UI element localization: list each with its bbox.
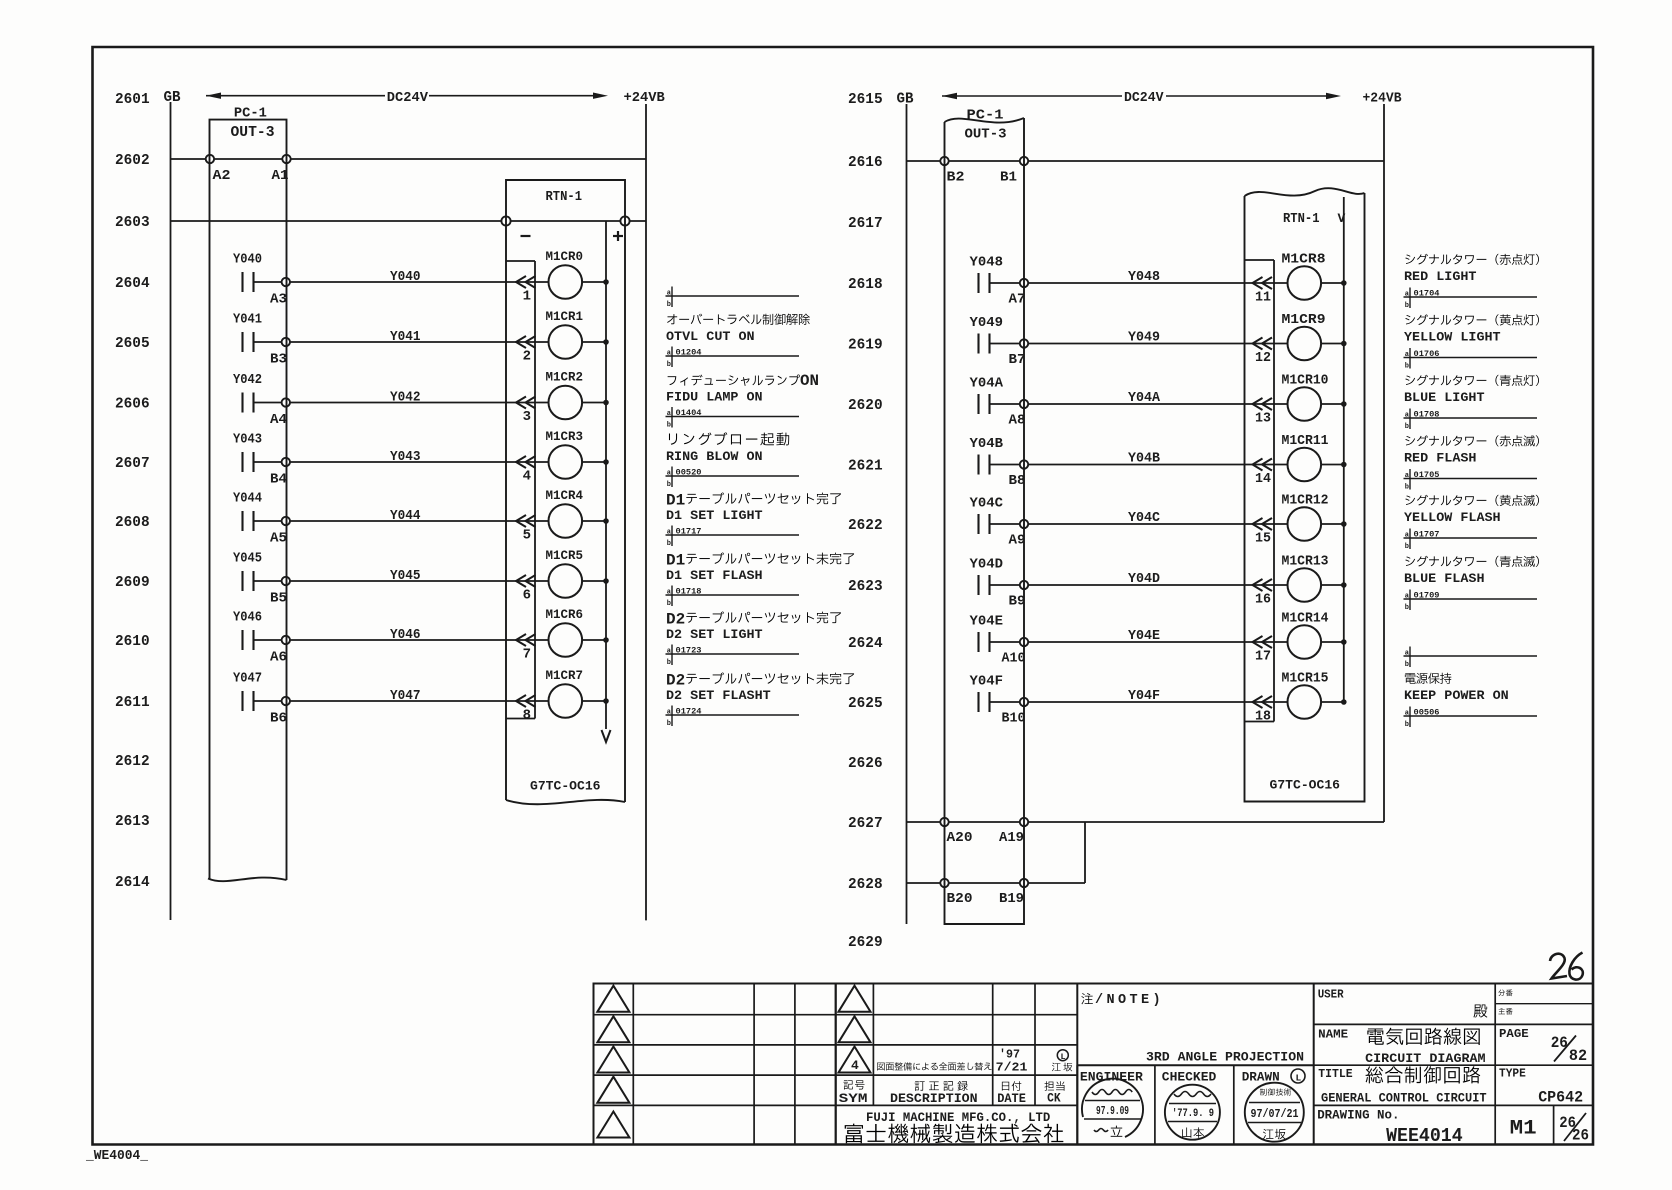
svg-text:B6: B6 — [270, 712, 287, 727]
svg-text:01718: 01718 — [676, 586, 702, 596]
svg-text:6: 6 — [523, 588, 531, 604]
wire coil M1CR10 to plus rail — [1321, 402, 1346, 407]
svg-text:b: b — [667, 301, 671, 309]
svg-text:7/21: 7/21 — [996, 1061, 1028, 1075]
relay coil M1CR13 — [1282, 555, 1329, 602]
wire +24VB bus right — [1383, 104, 1385, 822]
svg-text:b: b — [667, 720, 671, 728]
svg-text:15: 15 — [1255, 531, 1271, 547]
handwritten page 26 — [1550, 953, 1583, 980]
cell USER — [1318, 988, 1488, 1018]
relay coil M1CR15 — [1282, 672, 1329, 719]
svg-text:Y045: Y045 — [390, 568, 421, 584]
svg-text:b: b — [667, 481, 671, 489]
svg-text:PAGE: PAGE — [1499, 1027, 1529, 1041]
svg-text:Y047: Y047 — [390, 688, 421, 704]
wire minus column left — [506, 261, 535, 719]
revision mark 4 — [839, 1047, 871, 1074]
svg-text:01723: 01723 — [676, 645, 702, 655]
revision table right — [836, 984, 1078, 1145]
net label 2602 — [115, 152, 150, 169]
svg-text:CP642: CP642 — [1538, 1088, 1583, 1106]
svg-text:Y04C: Y04C — [970, 497, 1004, 512]
pin 14 — [1255, 471, 1271, 487]
wire contact to terminal B7 — [990, 343, 1020, 345]
svg-text:Y04D: Y04D — [970, 558, 1004, 573]
svg-text:b: b — [1405, 363, 1409, 371]
pin 8 — [523, 708, 531, 724]
net label 2623 — [848, 578, 883, 595]
relay coil M1CR12 — [1282, 494, 1329, 541]
svg-text:FIDU LAMP ON: FIDU LAMP ON — [666, 390, 763, 405]
net label 2621 — [848, 458, 883, 475]
pin 15 — [1255, 531, 1271, 547]
node A7 — [1009, 279, 1029, 308]
annotation row 2618 — [1404, 254, 1539, 310]
note box — [1077, 984, 1313, 1066]
arrow into RTN-1 pin 4 — [516, 456, 536, 468]
relay coil M1CR1 — [546, 309, 584, 359]
node GB right — [897, 92, 914, 108]
svg-text:b: b — [1405, 543, 1409, 551]
svg-text:Y04E: Y04E — [970, 615, 1004, 630]
contact Y047 — [233, 672, 262, 712]
svg-text:G7TC-OC16: G7TC-OC16 — [530, 779, 601, 794]
contact Y04D — [970, 558, 1004, 596]
revision mark right 1 — [839, 986, 871, 1012]
pin 17 — [1255, 649, 1271, 665]
svg-text:M1CR13: M1CR13 — [1282, 555, 1329, 570]
node A4 — [270, 398, 290, 428]
node A2 — [206, 155, 231, 184]
svg-text:G7TC-OC16: G7TC-OC16 — [1270, 778, 1341, 793]
svg-text:2610: 2610 — [115, 633, 150, 650]
node B2 — [940, 157, 964, 186]
svg-text:b: b — [1405, 484, 1409, 492]
node B20 — [940, 879, 972, 907]
node +24VB left — [624, 90, 666, 106]
svg-text:b: b — [667, 422, 671, 430]
node A10 — [1002, 638, 1029, 667]
svg-text:M1CR3: M1CR3 — [546, 429, 584, 444]
wire Y046 to coil — [290, 627, 549, 643]
svg-text:Y04F: Y04F — [970, 675, 1004, 690]
relay coil M1CR10 — [1282, 374, 1329, 421]
svg-text:17: 17 — [1255, 649, 1271, 665]
contact Y043 — [233, 433, 262, 473]
net label 2618 — [848, 276, 883, 293]
svg-text:01705: 01705 — [1414, 470, 1440, 480]
node A5 — [270, 517, 290, 547]
svg-text:Y04A: Y04A — [1128, 390, 1161, 406]
node A6 — [270, 636, 290, 666]
svg-text:Y044: Y044 — [233, 492, 262, 507]
wire plus rail right — [1343, 197, 1345, 702]
pin 5 — [523, 528, 531, 544]
pin 18 — [1255, 709, 1271, 725]
wire Y042 to coil — [290, 390, 549, 406]
svg-text:GENERAL CONTROL CIRCUIT: GENERAL CONTROL CIRCUIT — [1321, 1091, 1487, 1105]
wire contact to terminal A4 — [254, 402, 282, 404]
revision header SYM — [839, 1080, 868, 1106]
wire contact to terminal B4 — [254, 461, 282, 463]
node A1 — [272, 155, 291, 184]
svg-text:M1: M1 — [1510, 1118, 1537, 1141]
svg-text:ON: ON — [800, 372, 819, 390]
svg-text:D2 SET FLASHT: D2 SET FLASHT — [666, 688, 771, 703]
node +24VB right — [1363, 90, 1403, 106]
svg-text:B2: B2 — [947, 171, 965, 186]
net label 2620 — [848, 397, 883, 414]
cell user codes — [1495, 984, 1593, 1025]
svg-text:WEE4014: WEE4014 — [1386, 1125, 1463, 1147]
contact Y048 — [970, 256, 1004, 294]
wire contact to terminal B10 — [990, 701, 1020, 703]
svg-text:97.9.09: 97.9.09 — [1096, 1105, 1129, 1118]
pin 6 — [523, 588, 531, 604]
svg-text:2601: 2601 — [115, 91, 150, 108]
relay coil M1CR5 — [546, 548, 584, 598]
svg-text:D1: D1 — [666, 552, 685, 570]
annotation row 2607 — [666, 432, 800, 489]
svg-text:M1CR12: M1CR12 — [1282, 494, 1329, 509]
svg-text:Y043: Y043 — [233, 433, 262, 448]
wire Y04F to coil — [1028, 688, 1287, 704]
wire contact to terminal A3 — [254, 281, 282, 283]
svg-text:3RD ANGLE PROJECTION: 3RD ANGLE PROJECTION — [1146, 1049, 1304, 1064]
node A9 — [1009, 520, 1029, 549]
svg-text:2622: 2622 — [848, 517, 883, 534]
svg-text:RED LIGHT: RED LIGHT — [1404, 269, 1477, 284]
relay coil M1CR3 — [546, 429, 584, 479]
wire 2628 — [907, 882, 1086, 884]
pin 12 — [1255, 350, 1271, 366]
annotation row 2610 — [666, 611, 841, 668]
label ENGINEER — [1080, 1070, 1143, 1085]
svg-text:b: b — [667, 361, 671, 369]
svg-text:18: 18 — [1255, 709, 1271, 725]
svg-text:DC24V: DC24V — [1124, 90, 1164, 106]
svg-text:SYM: SYM — [839, 1091, 868, 1106]
svg-text:B7: B7 — [1009, 353, 1026, 368]
svg-text:B19: B19 — [999, 892, 1024, 907]
node B3 — [270, 338, 290, 368]
svg-text:+24VB: +24VB — [624, 90, 666, 106]
net label 2615 — [848, 91, 883, 108]
svg-text:01706: 01706 — [1414, 349, 1440, 359]
svg-text:Y043: Y043 — [390, 449, 421, 465]
node B5 — [270, 577, 290, 607]
svg-text:b: b — [667, 600, 671, 608]
svg-text:DATE: DATE — [997, 1091, 1026, 1106]
arrow into RTN-1 pin 18 — [1253, 696, 1273, 708]
wire contact to terminal B6 — [254, 700, 282, 702]
revision mark right 2 — [839, 1016, 871, 1042]
net label 2601 — [115, 91, 150, 108]
contact Y044 — [233, 492, 262, 532]
wire contact to terminal A6 — [254, 639, 282, 641]
svg-text:Y040: Y040 — [390, 269, 421, 285]
net label 2624 — [848, 635, 883, 652]
svg-text:L: L — [1296, 1073, 1302, 1084]
net label 2629 — [848, 934, 883, 951]
svg-text:2618: 2618 — [848, 276, 883, 293]
svg-text:NAME: NAME — [1318, 1027, 1348, 1041]
wire coil M1CR4 to plus rail — [582, 519, 608, 524]
arrow into RTN-1 pin 8 — [516, 695, 536, 707]
annotation row 2624 — [1404, 647, 1538, 670]
wire contact to terminal B8 — [990, 464, 1020, 466]
svg-text:01204: 01204 — [676, 347, 702, 357]
title info section — [1314, 984, 1593, 1145]
svg-text:01717: 01717 — [676, 526, 702, 536]
label CHECKED — [1162, 1070, 1217, 1085]
svg-text:2617: 2617 — [848, 215, 883, 232]
svg-text:01707: 01707 — [1414, 529, 1440, 539]
wire GB bus right — [906, 104, 908, 924]
wire coil M1CR13 to plus rail — [1321, 583, 1346, 588]
annotation row 2609 — [666, 552, 855, 609]
svg-text:TITLE: TITLE — [1318, 1067, 1352, 1081]
wire Y04C to coil — [1028, 510, 1287, 526]
net label 2614 — [115, 874, 150, 891]
svg-text:A10: A10 — [1002, 652, 1026, 667]
wire contact to terminal B9 — [990, 584, 1020, 586]
svg-text:Y041: Y041 — [233, 313, 262, 328]
node RTN-1 plus terminal — [613, 216, 630, 241]
cell sheet 26/26 — [1554, 1105, 1589, 1144]
cell TITLE — [1318, 1066, 1487, 1105]
svg-text:4: 4 — [523, 469, 531, 485]
revision table left — [594, 984, 836, 1145]
svg-text:2608: 2608 — [115, 514, 150, 531]
svg-text:b: b — [1405, 661, 1409, 669]
svg-text:B1: B1 — [1000, 171, 1017, 186]
svg-text:2629: 2629 — [848, 934, 883, 951]
revision 4 date — [996, 1048, 1028, 1075]
svg-text:D2: D2 — [666, 611, 685, 629]
svg-text:Y04B: Y04B — [970, 437, 1004, 452]
svg-text:b: b — [1405, 423, 1409, 431]
svg-text:b: b — [1405, 302, 1409, 310]
contact Y040 — [233, 253, 262, 293]
svg-text:2620: 2620 — [848, 397, 883, 414]
pin 1 — [523, 289, 531, 305]
svg-text:2612: 2612 — [115, 753, 150, 770]
annotation row 2621 — [1404, 435, 1539, 491]
svg-text:2602: 2602 — [115, 152, 150, 169]
svg-text:A5: A5 — [270, 532, 287, 547]
svg-text:2: 2 — [523, 349, 531, 365]
svg-text:B9: B9 — [1009, 595, 1026, 610]
document id — [85, 1149, 149, 1164]
pin 2 — [523, 349, 531, 365]
svg-text:Y04D: Y04D — [1128, 571, 1160, 587]
svg-text:OTVL CUT ON: OTVL CUT ON — [666, 329, 755, 344]
wire coil M1CR6 to plus rail — [582, 638, 608, 643]
net label 2611 — [115, 694, 150, 711]
svg-text:D1 SET LIGHT: D1 SET LIGHT — [666, 508, 763, 523]
stamp ENGINEER — [1082, 1079, 1143, 1137]
arrow into RTN-1 pin 13 — [1253, 398, 1273, 410]
revision mark left 1 — [597, 986, 629, 1012]
svg-text:Y04F: Y04F — [1128, 688, 1160, 704]
wire coil M1CR8 to plus rail — [1321, 281, 1346, 286]
net label 2627 — [848, 815, 883, 832]
svg-text:M1CR0: M1CR0 — [546, 249, 584, 264]
wire Y044 to coil — [290, 508, 549, 524]
annotation row 2608 — [666, 492, 841, 549]
wire coil M1CR1 to plus rail — [582, 340, 608, 345]
contact Y04F — [970, 675, 1004, 713]
svg-text:M1CR2: M1CR2 — [546, 370, 584, 385]
svg-text:16: 16 — [1255, 592, 1271, 608]
node GB left — [164, 90, 181, 106]
net label 2625 — [848, 695, 883, 712]
wire Y041 to coil — [290, 329, 549, 345]
svg-text:Y042: Y042 — [390, 390, 421, 406]
wire contact to terminal A10 — [990, 641, 1020, 643]
relay coil M1CR4 — [546, 488, 584, 538]
svg-text:01708: 01708 — [1414, 409, 1440, 419]
svg-text:M1CR10: M1CR10 — [1282, 374, 1329, 389]
revision header CK — [1044, 1081, 1064, 1105]
svg-text:b: b — [667, 659, 671, 667]
net label 2622 — [848, 517, 883, 534]
svg-text:A20: A20 — [947, 831, 973, 846]
wire coil M1CR15 to plus rail — [1321, 700, 1346, 705]
wire contact to terminal A8 — [990, 403, 1020, 405]
svg-text:M1CR15: M1CR15 — [1282, 672, 1329, 687]
svg-text:M1CR4: M1CR4 — [546, 488, 584, 503]
svg-text:A8: A8 — [1009, 414, 1026, 429]
svg-text:YELLOW FLASH: YELLOW FLASH — [1404, 510, 1501, 525]
contact Y042 — [233, 373, 262, 413]
svg-text:M1CR7: M1CR7 — [546, 668, 584, 683]
svg-text:01709: 01709 — [1414, 590, 1440, 600]
svg-text:01404: 01404 — [676, 408, 702, 418]
svg-text:B4: B4 — [270, 473, 287, 488]
wire contact to terminal A5 — [254, 520, 282, 522]
wire coil M1CR11 to plus rail — [1321, 462, 1346, 467]
relay coil M1CR6 — [546, 607, 584, 657]
pin 4 — [523, 469, 531, 485]
net label 2603 — [115, 214, 150, 231]
approval row grid — [1077, 1065, 1313, 1144]
svg-text:13: 13 — [1255, 411, 1271, 427]
wire Y047 to coil — [290, 688, 549, 704]
svg-text:7: 7 — [523, 647, 531, 663]
svg-text:2606: 2606 — [115, 396, 150, 413]
svg-text:YELLOW LIGHT: YELLOW LIGHT — [1404, 330, 1501, 345]
wire Y04B to coil — [1028, 451, 1287, 467]
relay unit RTN-1 left — [506, 180, 625, 804]
net label 2610 — [115, 633, 150, 650]
svg-text:KEEP POWER ON: KEEP POWER ON — [1404, 688, 1509, 703]
svg-text:2625: 2625 — [848, 695, 883, 712]
node A3 — [270, 278, 290, 308]
net label 2604 — [115, 275, 150, 292]
svg-text:2603: 2603 — [115, 214, 150, 231]
pin 13 — [1255, 411, 1271, 427]
annotation row 2620 — [1404, 375, 1539, 431]
svg-text:+24VB: +24VB — [1363, 90, 1403, 106]
contact Y04E — [970, 615, 1004, 653]
net label 2613 — [115, 813, 150, 830]
svg-text:'97: '97 — [999, 1048, 1020, 1062]
svg-text:3: 3 — [523, 409, 531, 425]
svg-text:A1: A1 — [272, 169, 289, 184]
svg-text:Y049: Y049 — [970, 316, 1004, 331]
wire coil M1CR5 to plus rail — [582, 579, 608, 584]
annotation row 2619 — [1404, 314, 1539, 370]
revision 4 CK — [1052, 1050, 1072, 1072]
svg-text:2609: 2609 — [115, 574, 150, 591]
annotation row 2606 — [666, 372, 820, 430]
svg-text:12: 12 — [1255, 350, 1271, 366]
note label — [1081, 993, 1164, 1008]
svg-text:A3: A3 — [270, 293, 287, 308]
svg-text:D2 SET LIGHT: D2 SET LIGHT — [666, 627, 763, 642]
svg-text:2628: 2628 — [848, 876, 883, 893]
svg-text:97/07/21: 97/07/21 — [1251, 1108, 1299, 1121]
wire coil M1CR0 to plus rail — [582, 280, 608, 285]
svg-text:B20: B20 — [947, 892, 973, 907]
wire coil M1CR2 to plus rail — [582, 400, 608, 405]
revision mark left 5 — [597, 1112, 629, 1138]
cell TYPE — [1495, 1065, 1583, 1106]
net label 2619 — [848, 337, 883, 354]
wire 2603 — [171, 220, 647, 222]
svg-text:M1CR11: M1CR11 — [1282, 434, 1329, 449]
arrow into RTN-1 pin 14 — [1253, 459, 1273, 471]
wire Y04E to coil — [1028, 628, 1287, 644]
svg-text:USER: USER — [1318, 988, 1345, 1002]
svg-text:01704: 01704 — [1414, 288, 1440, 298]
contact Y046 — [233, 611, 262, 651]
relay coil M1CR14 — [1282, 612, 1329, 659]
svg-text:2615: 2615 — [848, 91, 883, 108]
svg-text:Y041: Y041 — [390, 329, 421, 345]
net label 2609 — [115, 574, 150, 591]
node A8 — [1009, 400, 1029, 429]
arrow into RTN-1 pin 12 — [1253, 338, 1273, 350]
relay coil M1CR8 — [1282, 253, 1326, 300]
svg-text:00520: 00520 — [676, 467, 702, 477]
arrow into RTN-1 pin 2 — [516, 336, 536, 348]
wire Y04D to coil — [1028, 571, 1287, 587]
cell DRAWING No — [1317, 1109, 1463, 1147]
svg-text:2605: 2605 — [115, 335, 150, 352]
annotation row 2611 — [666, 672, 855, 729]
wire 2602 — [171, 158, 647, 160]
pin 3 — [523, 409, 531, 425]
svg-text:b: b — [1405, 604, 1409, 612]
svg-text:Y044: Y044 — [390, 508, 421, 524]
svg-text:2627: 2627 — [848, 815, 883, 832]
wire plus rail left — [602, 221, 611, 742]
wire contact to terminal B3 — [254, 341, 282, 343]
wire 2616 — [907, 160, 1385, 162]
wire Y048 to coil — [1028, 269, 1287, 285]
svg-text:4: 4 — [851, 1058, 859, 1073]
net label 2607 — [115, 455, 150, 472]
net label 2612 — [115, 753, 150, 770]
svg-text:RTN-1: RTN-1 — [1283, 211, 1320, 227]
wire DC24V span right — [942, 90, 1341, 106]
contact Y04C — [970, 497, 1004, 535]
svg-text:CHECKED: CHECKED — [1162, 1070, 1217, 1085]
